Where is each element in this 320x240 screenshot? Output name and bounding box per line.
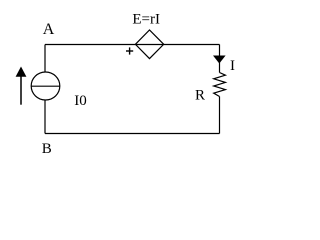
svg-text:R: R: [195, 88, 205, 104]
svg-text:B: B: [42, 141, 52, 157]
resistor R zigzag: [214, 73, 226, 97]
svg-text:I: I: [230, 58, 235, 74]
current direction arrow of I0: [16, 67, 27, 105]
polarity + sign: [126, 47, 133, 54]
label E=rI: [132, 11, 160, 27]
svg-text:E=rI: E=rI: [132, 11, 160, 27]
current source I0 (circle with horizontal bar): [31, 72, 60, 100]
current arrow I (down triangle on right wire): [213, 56, 226, 64]
label A: [43, 21, 55, 38]
wire right bottom (resistor bottom to corner): [219, 97, 221, 134]
wire top (node A to resistor, through E source): [45, 44, 220, 46]
svg-text:A: A: [43, 21, 55, 38]
dependent source E=rI (diamond): [135, 30, 163, 59]
wire left top (A corner down to current source): [44, 45, 46, 73]
wire left bottom (current source down to B corner): [44, 100, 46, 134]
svg-text:I0: I0: [74, 93, 87, 109]
wire right top (corner down to resistor top): [219, 45, 221, 73]
label I: [230, 58, 235, 74]
label B: [42, 141, 52, 157]
label I0: [74, 93, 87, 109]
label R: [195, 88, 205, 104]
wire bottom (node B to resistor bottom): [45, 133, 220, 135]
